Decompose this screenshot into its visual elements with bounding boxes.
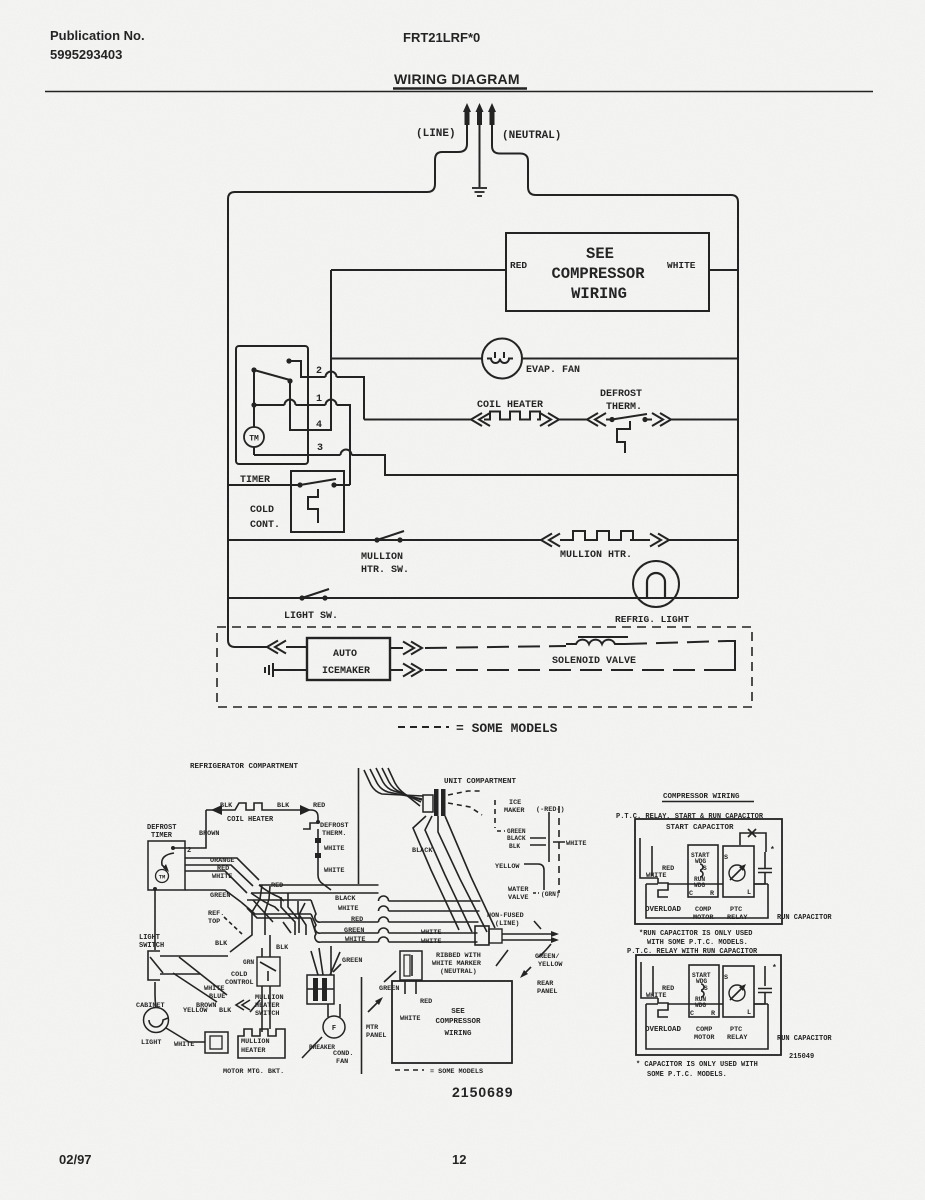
connector chevrons after mullion heater: [650, 534, 669, 547]
light switch contacts: [299, 595, 304, 600]
vertical harness drops to switches: [230, 885, 262, 952]
compressor wiring box: [506, 233, 709, 311]
node timer common: [251, 367, 256, 372]
main harness diagonal bundle: [413, 816, 459, 930]
wire defrost therm drop: [301, 810, 318, 822]
rear panel wires: [538, 944, 551, 957]
compartment divider line upper: [358, 768, 360, 884]
run capacitor 1: [758, 852, 772, 884]
wire neutral prong to box top: [492, 125, 536, 195]
box2 return wires: [646, 1004, 768, 1049]
timer output wire orange: [185, 858, 259, 880]
mullion heater switch pictorial: [236, 1000, 250, 1010]
wire light rail: [228, 597, 738, 599]
wire timer to light switch: [154, 890, 156, 950]
connector chevrons icemaker out bottom: [390, 669, 403, 671]
connector chevrons before mullion heater: [541, 534, 560, 547]
overload protector 1: [658, 878, 668, 897]
wire evap fan rail: [331, 358, 738, 360]
light switch pictorial: [148, 951, 163, 980]
timer motor TM pictorial: [156, 870, 169, 883]
wire line prong to box top: [427, 125, 467, 192]
condenser fan motor: [323, 1016, 345, 1038]
timer box: [236, 346, 308, 464]
yellow wire: [524, 864, 544, 890]
timer switch blade: [254, 370, 290, 380]
harness wire black: [259, 885, 481, 901]
harness wire red: [247, 900, 479, 922]
legend dashes: [398, 726, 449, 728]
wire white drop from defrost therm: [318, 829, 331, 890]
dashed box some models: [217, 627, 752, 707]
start capacitor X mark: [748, 829, 756, 837]
breaker connector fan-out: [311, 946, 340, 975]
arrowhead left on coil heater wire: [211, 805, 222, 815]
wire coil heater rail left: [364, 419, 471, 421]
green yellow pointer: [522, 967, 531, 976]
auto icemaker box: [307, 638, 390, 680]
wire cabinet light white: [166, 1028, 205, 1042]
node timer motor top: [251, 402, 256, 407]
mtr panel pointer arrow: [368, 999, 381, 1012]
connector chevrons before defrost therm: [587, 413, 606, 426]
wire rail to defrost therm: [559, 419, 587, 421]
wire cold control line from left edge: [228, 484, 300, 486]
full width rule: [45, 91, 873, 93]
breaker connector box: [307, 975, 334, 1004]
box2 supply wires: [641, 962, 658, 998]
connector chevrons icemaker out top: [390, 647, 403, 649]
extra weave wires: [288, 893, 305, 933]
supply prong (LINE): [463, 103, 471, 125]
motor winding marks 1: [700, 864, 703, 877]
mullion heater switch contacts: [374, 537, 379, 542]
supply prong (NEUTRAL): [488, 103, 496, 125]
wire timer pin2 to coil heater rail: [289, 361, 326, 377]
wire brown drop: [173, 810, 206, 848]
mullion heater box: [238, 1029, 285, 1058]
connector chevrons icemaker input: [267, 641, 286, 654]
ref top dashed pointer: [224, 917, 242, 934]
unit compartment connector block: [423, 795, 433, 812]
cold control sensing element: [308, 489, 318, 523]
motor winding marks 2: [701, 984, 704, 997]
timer output wire white: [185, 871, 247, 893]
node timer contact: [287, 378, 292, 383]
overload protector 2: [658, 998, 668, 1017]
wire ground to icemaker: [273, 669, 307, 671]
timer cam symbol: [162, 853, 174, 870]
wire timer pin3 to rail: [254, 454, 341, 456]
timer motor TM: [244, 427, 264, 447]
water valve connector: [533, 892, 539, 894]
wire dashed icemaker to solenoid: [425, 646, 566, 648]
harness wire green: [241, 902, 478, 933]
ptc run box 2: [636, 955, 781, 1055]
wire red from compressor box: [331, 269, 506, 271]
title underline: [393, 87, 527, 89]
wire dashed solenoid to right bracket: [625, 641, 728, 644]
comp motor box 1: [688, 845, 718, 897]
wire light switch to cabinet light: [155, 982, 156, 1007]
wire white from compressor box: [709, 269, 738, 271]
wire dashed icemaker bottom to bracket: [425, 669, 726, 671]
ptc disc symbol 2: [729, 985, 745, 1001]
timer output wire green: [185, 890, 241, 902]
ptc disc symbol 1: [729, 865, 745, 881]
defrost thermostat contacts: [609, 417, 614, 422]
defrost timer box: [148, 841, 185, 890]
box1 return wires: [640, 878, 768, 918]
wire timer motor leads: [253, 405, 255, 427]
timer output wire red: [185, 865, 253, 886]
run capacitor 2: [758, 966, 772, 1004]
ptc relay box 1: [723, 846, 754, 897]
box2 main wire: [668, 1003, 765, 1005]
coil heater element: [484, 412, 540, 420]
box1 supply wires: [640, 838, 658, 878]
wire mullion rail right: [630, 539, 650, 541]
start capacitor loop 1: [740, 833, 766, 852]
wire timer internal vertical: [253, 370, 255, 405]
wire fan to bracket: [302, 1037, 322, 1058]
ptc relay box 2: [723, 966, 754, 1017]
compartment divider line lower: [361, 977, 363, 1074]
cold control contacts: [297, 482, 302, 487]
node timer bottom terminal: [153, 887, 157, 891]
wire rail to right edge: [645, 419, 652, 421]
pictorial coil heater wire: [206, 803, 301, 810]
wire right bracket: [726, 641, 735, 670]
node timer pin2 contact: [286, 358, 291, 363]
unit compartment connector feed wires: [364, 770, 423, 796]
see compressor wiring box lower: [392, 981, 512, 1063]
solenoid valve coil: [566, 640, 625, 644]
mullion heater relay box: [205, 1032, 228, 1053]
evap fan motor: [482, 339, 522, 379]
ice maker dashed leads: [448, 791, 480, 795]
ice maker wiring verticals: [558, 806, 560, 893]
ground symbol: [472, 188, 487, 196]
harness wire white3: [247, 908, 478, 942]
supply prong ground pin: [476, 103, 484, 125]
box1 main wire: [668, 883, 765, 885]
connector chevrons after defrost therm: [652, 413, 671, 426]
node timer terminal 2: [171, 846, 175, 850]
compressor connector block: [400, 951, 422, 980]
mullion heater element: [560, 539, 567, 541]
connector chevrons right of coil heater: [540, 413, 559, 426]
connector chevrons left of coil heater: [471, 413, 490, 426]
defrost thermostat sensing element: [617, 421, 630, 453]
defrost thermostat pictorial: [316, 820, 320, 824]
wires connector to compressor box: [405, 980, 416, 994]
non-fused line connector: [475, 926, 489, 945]
cabinet light pictorial: [144, 1008, 169, 1033]
node defrost therm splice: [315, 838, 321, 843]
wires harness to cold control: [262, 935, 270, 957]
outer box left/top outline: [228, 192, 427, 647]
outer box top-right/right outline: [536, 195, 738, 598]
refrigerator light bulb: [633, 561, 679, 607]
harness wire white2: [251, 893, 480, 911]
wire ground pin down: [479, 125, 481, 187]
wires to rear with arrows: [502, 934, 551, 940]
wire red vertical drop: [290, 270, 331, 430]
wires cold control to mullion heater: [261, 986, 263, 1032]
legend some models lower: [395, 1069, 424, 1071]
cold control box: [291, 471, 344, 532]
wire timer pin1 to cold control: [254, 404, 285, 406]
arrowhead right on coil heater wire: [300, 805, 311, 815]
ptc start run box 1: [635, 819, 782, 924]
wire mullion rail: [228, 539, 541, 541]
icemaker ground symbol: [265, 663, 273, 677]
comp motor box 2: [689, 965, 719, 1017]
cold control pictorial box: [257, 957, 280, 986]
